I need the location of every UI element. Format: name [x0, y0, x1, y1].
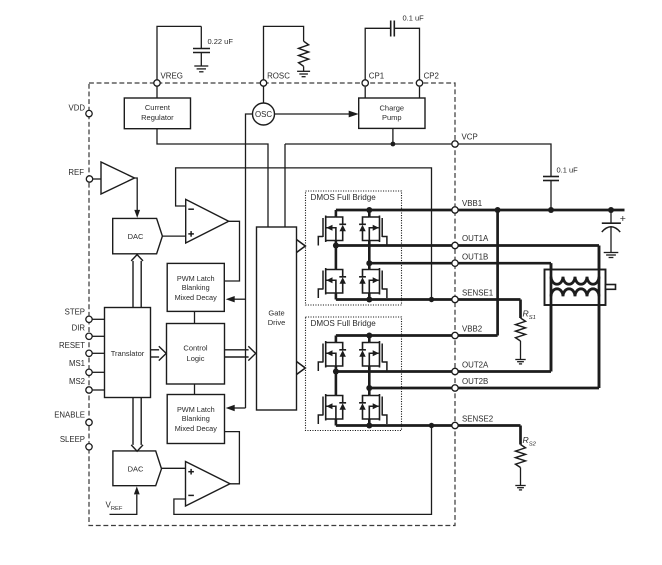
- svg-text:MS2: MS2: [69, 377, 85, 386]
- svg-text:VDD: VDD: [69, 103, 86, 112]
- svg-text:SLEEP: SLEEP: [60, 435, 85, 444]
- svg-text:Blanking: Blanking: [182, 414, 210, 423]
- svg-text:Blanking: Blanking: [182, 283, 210, 292]
- svg-text:Mixed Decay: Mixed Decay: [175, 293, 218, 302]
- svg-text:OUT1B: OUT1B: [462, 253, 488, 262]
- svg-text:SENSE1: SENSE1: [462, 289, 493, 298]
- svg-text:ROSC: ROSC: [267, 71, 290, 80]
- svg-text:0.1 uF: 0.1 uF: [403, 13, 425, 22]
- svg-text:REF: REF: [68, 168, 84, 177]
- svg-text:Pump: Pump: [382, 113, 402, 122]
- svg-text:OSC: OSC: [255, 110, 272, 119]
- svg-text:Translator: Translator: [111, 349, 145, 358]
- svg-text:OUT2B: OUT2B: [462, 377, 488, 386]
- svg-text:ENABLE: ENABLE: [54, 410, 85, 419]
- svg-text:DMOS Full Bridge: DMOS Full Bridge: [311, 193, 377, 202]
- svg-text:CP2: CP2: [424, 72, 439, 81]
- svg-text:Regulator: Regulator: [141, 113, 174, 122]
- svg-text:MS1: MS1: [69, 359, 85, 368]
- svg-text:Logic: Logic: [187, 354, 205, 363]
- svg-text:Drive: Drive: [268, 318, 286, 327]
- svg-text:DMOS Full Bridge: DMOS Full Bridge: [311, 319, 377, 328]
- svg-text:Current: Current: [145, 103, 171, 112]
- svg-text:VBB2: VBB2: [462, 324, 482, 333]
- svg-text:PWM Latch: PWM Latch: [177, 274, 215, 283]
- svg-text:SENSE2: SENSE2: [462, 414, 493, 423]
- svg-text:Control: Control: [183, 344, 208, 353]
- svg-text:Mixed Decay: Mixed Decay: [175, 424, 218, 433]
- svg-text:CP1: CP1: [369, 72, 384, 81]
- svg-text:Gate: Gate: [268, 309, 284, 318]
- svg-text:RESET: RESET: [59, 341, 85, 350]
- svg-text:DAC: DAC: [128, 232, 144, 241]
- svg-text:VCP: VCP: [462, 132, 478, 141]
- svg-text:+: +: [620, 213, 626, 225]
- svg-text:0.1 uF: 0.1 uF: [557, 166, 579, 175]
- svg-text:VBB1: VBB1: [462, 199, 482, 208]
- svg-text:OUT2A: OUT2A: [462, 360, 489, 369]
- svg-text:STEP: STEP: [65, 307, 85, 316]
- svg-text:VREG: VREG: [161, 71, 183, 80]
- svg-text:DIR: DIR: [72, 323, 86, 332]
- svg-text:OUT1A: OUT1A: [462, 234, 489, 243]
- svg-text:Charge: Charge: [379, 104, 404, 113]
- svg-text:0.22 uF: 0.22 uF: [208, 37, 234, 46]
- svg-text:DAC: DAC: [128, 465, 144, 474]
- svg-text:PWM Latch: PWM Latch: [177, 405, 215, 414]
